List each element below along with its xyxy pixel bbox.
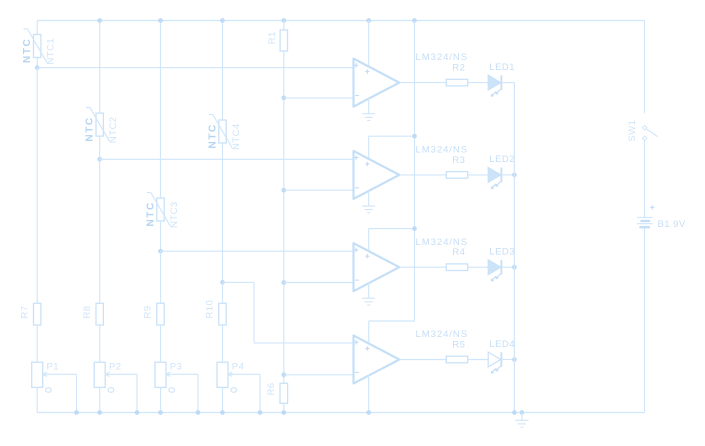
wire top power rail (37, 20, 644, 22)
switch SW1 (642, 126, 647, 131)
node chain 2 on top rail (97, 18, 102, 23)
node P3 wiper on ground rail (196, 410, 201, 415)
node R1 top on rail (281, 18, 286, 23)
node P3 bottom on ground rail (158, 410, 163, 415)
wire P3 bottom to ground rail (160, 387, 162, 412)
svg-text:R5: R5 (452, 339, 465, 350)
svg-text:NTC1: NTC1 (46, 38, 57, 65)
node LED4 on LED rail (512, 357, 517, 362)
potentiometer P4 (217, 362, 228, 387)
svg-text:P3: P3 (170, 362, 183, 373)
node P2 bottom on ground rail (97, 410, 102, 415)
ground symbol op-amp 2 (362, 205, 375, 207)
thermistor NTC3 (157, 198, 164, 221)
wire LED cathode rail (513, 83, 515, 413)
wire chain 1 upper segment (36, 21, 38, 35)
wire op-amp 1 V- pin to ground (368, 98, 370, 114)
svg-text:R4: R4 (452, 247, 465, 258)
svg-text:P1: P1 (47, 362, 60, 373)
LED LED1 (488, 75, 501, 90)
node LED2 on LED rail (512, 173, 517, 178)
potentiometer P3 (155, 362, 166, 387)
node junction chain 2 (97, 157, 102, 162)
wire P1 wiper to ground rail (76, 374, 78, 412)
wire chain 4 below thermistor (222, 143, 224, 282)
node junction chain 4 (220, 280, 225, 285)
wire op-amp 3 V- pin to ground (368, 283, 370, 299)
wire chain 3 below thermistor (160, 221, 162, 251)
wire supply jog to op-amp 3 V+ (369, 228, 415, 230)
wire supply jog to op-amp 2 V+ (369, 135, 415, 137)
wire P1 bottom to ground rail (36, 387, 38, 412)
wire minus input op-amp 3 (284, 282, 354, 284)
ground symbol op-amp 1 (362, 113, 375, 115)
wire NTC4 junction jog to op-amp U1D + input (223, 281, 255, 283)
node op-amp 4 V- on ground rail (366, 410, 371, 415)
potentiometer P1 (32, 362, 43, 387)
svg-text:LED4: LED4 (489, 339, 515, 350)
LED LED4 (488, 352, 501, 367)
node supply rail on top rail (412, 18, 417, 23)
wire P2 bottom to ground rail (99, 387, 101, 412)
wire LED3 to LED rail (501, 266, 514, 268)
wire top rail to R1 (283, 21, 285, 31)
wire R3 to LED2 (468, 174, 489, 176)
wire bottom ground rail (37, 412, 644, 414)
svg-text:NTC: NTC (208, 123, 219, 148)
node junction chain 1 (35, 65, 40, 70)
svg-text:LED2: LED2 (489, 154, 515, 165)
node junction chain 3 (158, 249, 163, 254)
resistor R3 (446, 172, 467, 179)
wire LED4 to LED rail (501, 359, 514, 361)
node minus rail to op-amp 1 (281, 96, 286, 101)
wire R8 to potentiometer P2 (99, 325, 101, 362)
node chain 4 on top rail (220, 18, 225, 23)
node P2 wiper on ground rail (135, 410, 140, 415)
wire supply jog to op-amp 4 V+ (369, 320, 415, 322)
svg-text:NTC2: NTC2 (108, 116, 119, 143)
svg-text:LED3: LED3 (489, 247, 515, 258)
resistor R7 (34, 303, 41, 325)
op-amp U1 section B LM324/NS (354, 151, 400, 199)
battery B1 (637, 216, 653, 218)
svg-text:B1 9V: B1 9V (658, 219, 686, 230)
label + of battery B1 (650, 206, 654, 208)
node ground symbol on ground rail (520, 410, 525, 415)
svg-text:NTC: NTC (146, 201, 157, 226)
wire R5 to LED4 (468, 359, 489, 361)
resistor R9 (157, 303, 164, 325)
svg-text:R7: R7 (19, 305, 30, 318)
resistor R5 (446, 356, 467, 363)
wire op-amp 4 V- pin to ground rail (368, 375, 370, 413)
wire minus input op-amp 4 (284, 374, 354, 376)
svg-text:SW1: SW1 (627, 120, 638, 142)
wire op-amp U1A V+ pin (368, 21, 370, 67)
ground symbol op-amp 3 (362, 297, 375, 299)
wire op-amp 2 V- pin to ground (368, 190, 370, 206)
node supply rail jog 2 (412, 134, 417, 139)
node minus rail to op-amp 4 (281, 372, 286, 377)
resistor R1 (280, 30, 287, 51)
svg-text:R9: R9 (143, 305, 154, 318)
op-amp U1 section D LM324/NS (354, 336, 400, 384)
resistor R10 (219, 303, 226, 325)
wire P3 wiper to ground rail (197, 374, 199, 412)
LED LED2 (488, 168, 501, 183)
svg-text:R2: R2 (452, 63, 465, 74)
wire op-amp 2 output to R3 (399, 174, 446, 176)
svg-text:P2: P2 (109, 362, 122, 373)
wire chain 1 below thermistor (36, 58, 38, 68)
wire R4 to LED3 (468, 266, 489, 268)
wire chain 4 upper segment (222, 21, 224, 121)
node LED3 on LED rail (512, 265, 517, 270)
node minus rail to op-amp 2 (281, 188, 286, 193)
ground symbol bottom (521, 413, 523, 421)
node P1 wiper on ground rail (74, 410, 79, 415)
thermistor NTC1 (34, 35, 41, 58)
svg-text:R6: R6 (266, 382, 277, 395)
wire chain 2 below thermistor (99, 136, 101, 159)
wire chain 3 upper segment (160, 21, 162, 199)
wire chain 2 upper segment (99, 21, 101, 114)
LED LED3 (488, 260, 501, 275)
wire R1 to minus rail (283, 51, 285, 383)
thermistor NTC2 (96, 113, 103, 136)
wire NTC3 junction to op-amp U1C + input (161, 250, 354, 252)
node minus rail to op-amp 3 (281, 280, 286, 285)
wire chain 2 to resistor R8 (99, 159, 101, 303)
resistor R2 (446, 79, 467, 86)
op-amp U1 section A LM324/NS (354, 59, 400, 107)
svg-text:P4: P4 (232, 362, 245, 373)
wire R7 to potentiometer P1 (36, 325, 38, 362)
node LED rail on ground rail (512, 410, 517, 415)
svg-text:R1: R1 (267, 31, 278, 44)
op-amp U1 section C LM324/NS (354, 243, 400, 291)
svg-text:NTC: NTC (85, 116, 96, 141)
wire chain 3 to resistor R9 (160, 251, 162, 303)
svg-text:R8: R8 (82, 305, 93, 318)
node chain 3 on top rail (158, 18, 163, 23)
wire op-amp 1 output to R2 (399, 82, 446, 84)
wire R2 to LED1 (468, 82, 489, 84)
svg-text:NTC3: NTC3 (169, 201, 180, 228)
wire op-amp 4 output to R5 (399, 359, 446, 361)
wire P2 wiper to ground rail (136, 374, 138, 412)
wire P4 bottom to ground rail (222, 387, 224, 412)
svg-text:NTC4: NTC4 (231, 123, 242, 150)
wire right rail upper (top rail to SW1) (644, 21, 646, 114)
wire minus input op-amp 1 (284, 97, 354, 99)
node supply rail jog 3 (412, 226, 417, 231)
wire minus input op-amp 2 (284, 189, 354, 191)
wire NTC2 junction to op-amp U1B + input (100, 158, 354, 160)
wire op-amp 3 output to R4 (399, 266, 446, 268)
wire NTC1 junction to op-amp U1A + input (37, 67, 353, 69)
wire P4 wiper to ground rail (259, 374, 261, 412)
node P4 wiper on ground rail (258, 410, 263, 415)
wire right rail lower (SW1 to B1 to bottom rail) (644, 140, 646, 217)
resistor R8 (96, 303, 103, 325)
wire supply rail vertical (414, 21, 416, 322)
wire chain 1 to resistor R7 (36, 68, 38, 304)
svg-text:R3: R3 (452, 155, 465, 166)
resistor R6 (280, 383, 288, 403)
potentiometer P2 (94, 362, 105, 387)
svg-text:NTC: NTC (22, 38, 33, 63)
wire LED1 to LED rail (501, 82, 514, 84)
wire R9 to potentiometer P3 (160, 325, 162, 362)
node R6 on ground rail (281, 410, 286, 415)
wire LED2 to LED rail (501, 174, 514, 176)
node op-amp U1A V+ on top rail (366, 18, 371, 23)
thermistor NTC4 (219, 120, 226, 143)
svg-text:LED1: LED1 (489, 62, 515, 73)
resistor R4 (446, 264, 467, 271)
wire R6 to ground rail (283, 403, 285, 412)
svg-text:R10: R10 (205, 300, 216, 319)
node P4 bottom on ground rail (220, 410, 225, 415)
wire chain 4 to resistor R10 (222, 282, 224, 303)
wire R10 to potentiometer P4 (222, 325, 224, 362)
